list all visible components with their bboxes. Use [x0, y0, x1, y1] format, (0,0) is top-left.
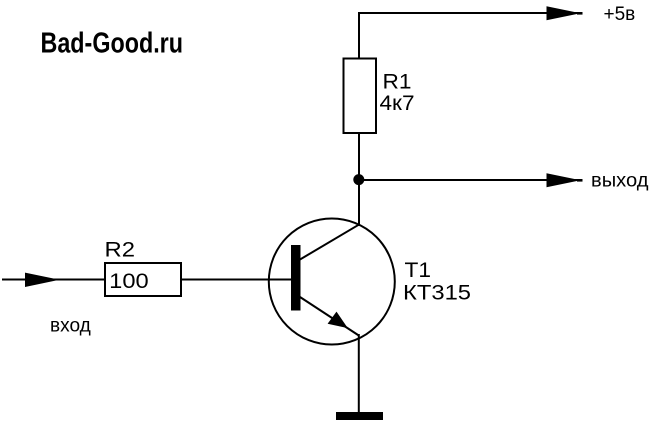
junction node dot [353, 174, 364, 185]
wire vertical from rail to R1 [358, 12, 360, 58]
wire R1 bottom to collector [358, 134, 360, 227]
transistor T1 base bar [291, 245, 301, 311]
svg-text:T1: T1 [405, 259, 432, 282]
svg-text:4к7: 4к7 [380, 92, 415, 115]
wire emitter to ground [358, 334, 360, 412]
svg-text:выход: выход [591, 170, 649, 191]
svg-text:+5в: +5в [604, 4, 636, 25]
transistor T1 emitter arrowhead [328, 312, 348, 329]
svg-text:Bad-Good.ru: Bad-Good.ru [41, 27, 184, 59]
transistor T1 circle [269, 219, 395, 345]
wire base [182, 279, 292, 281]
ground [336, 412, 383, 420]
svg-text:R2: R2 [105, 239, 136, 262]
arrow +5v [547, 6, 581, 20]
transistor T1 collector line [300, 225, 359, 260]
arrow output [547, 173, 581, 187]
wire output [359, 179, 580, 181]
wire top rail +5v [359, 12, 580, 14]
resistor R1 [344, 59, 377, 134]
svg-text:вход: вход [50, 315, 91, 336]
svg-text:КТ315: КТ315 [403, 282, 471, 305]
svg-text:100: 100 [109, 270, 149, 293]
wire input [2, 279, 104, 281]
svg-text:R1: R1 [383, 71, 412, 94]
resistor R2 [105, 263, 181, 296]
transistor T1 emitter line [300, 297, 359, 336]
arrow input [25, 273, 60, 287]
